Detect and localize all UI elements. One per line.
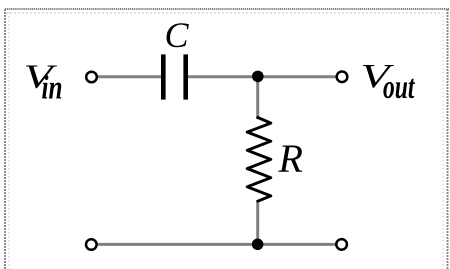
terminal bottom-left (86, 239, 97, 250)
svg-text:C: C (165, 15, 190, 55)
terminal top-left (86, 72, 97, 83)
wire top right (capacitor to Vout terminal through node) (188, 75, 337, 78)
svg-text:out: out (383, 69, 416, 106)
label Vin (24, 59, 63, 107)
capacitor C1 plates (161, 54, 188, 99)
border right dotted (443, 9, 448, 269)
wire vertical upper (node to resistor) (256, 77, 259, 119)
svg-text:in: in (42, 70, 63, 107)
resistor R1 zigzag (247, 118, 271, 202)
svg-text:R: R (278, 136, 303, 181)
wire vertical lower (resistor to bottom node) (256, 200, 259, 244)
wire top left (Vin terminal to capacitor) (97, 75, 162, 78)
terminal bottom-right (336, 239, 347, 250)
node B (bottom junction) (252, 239, 264, 251)
border top dotted (5, 9, 449, 13)
terminal top-right (337, 72, 348, 83)
label Vout (361, 58, 416, 106)
wire bottom (left terminal to right terminal) (97, 243, 336, 246)
border left dotted (5, 9, 9, 269)
node A (top junction) (252, 71, 264, 83)
